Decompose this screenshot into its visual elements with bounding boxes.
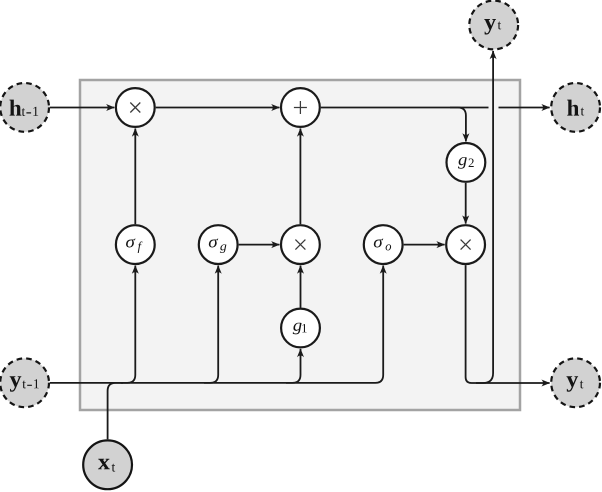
wire bus branch to g1: [286, 349, 301, 383]
node x_t: [83, 440, 132, 489]
node y_t top: [469, 1, 518, 50]
node h_t: [551, 83, 600, 132]
wire g2 to times3: [465, 183, 467, 224]
op g2: [447, 143, 486, 182]
op times3: [446, 225, 485, 264]
wire sigma_f to times1: [134, 129, 136, 225]
wire bus branch to sigma_f: [121, 266, 135, 383]
node y_t right: [551, 358, 600, 407]
cell body box: [80, 80, 520, 410]
op g1: [281, 309, 320, 348]
wire plus toward crossing: [321, 107, 489, 109]
wire bus branch to sigma_g: [204, 266, 218, 383]
node y_t-1: [0, 358, 49, 407]
wire times1 to plus: [156, 107, 280, 109]
wire h_t-1 to times1: [50, 107, 115, 109]
wire g1 to times2: [300, 266, 302, 308]
op times2: [281, 225, 320, 264]
op times1: [116, 88, 155, 127]
wire sigma_g to times2: [239, 244, 280, 246]
wire y_t-1 bus to sigma_o: [50, 266, 384, 383]
wire crossing to h_t: [499, 107, 550, 109]
wire times3 output to y_t right: [466, 265, 550, 383]
op sigma_g: [199, 225, 238, 264]
wire x_t join to bus: [108, 383, 123, 439]
wire riser branch to y_t top: [476, 51, 493, 383]
wire sigma_o to times3: [404, 244, 445, 246]
op plus: [281, 88, 320, 127]
wire branch down to g2: [450, 108, 466, 142]
wire times2 to plus: [299, 129, 301, 225]
node h_t-1: [0, 83, 49, 132]
op sigma_f: [116, 225, 155, 264]
op sigma_o: [364, 225, 403, 264]
